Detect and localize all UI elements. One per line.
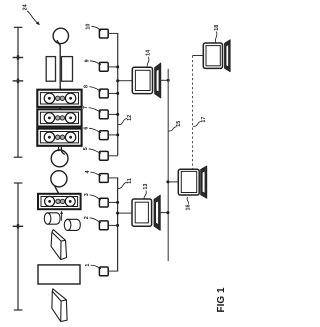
sensor box 1 bbox=[99, 267, 108, 276]
leader 10 bbox=[92, 26, 101, 30]
junction dot 9 bbox=[116, 65, 119, 68]
wire computer18 to dashed line corner bbox=[193, 55, 204, 57]
leader squiggle 13 bbox=[144, 191, 146, 200]
leader arrow for 24 bbox=[27, 11, 40, 25]
reel R1 (unwinder top) bbox=[53, 28, 68, 45]
leader squiggle 15 bbox=[168, 127, 176, 131]
wire box2 to bus bbox=[108, 224, 117, 226]
sensor box 3 bbox=[99, 198, 108, 207]
computer 13 monitor bbox=[132, 199, 152, 226]
tick mark at y57 bbox=[13, 55, 24, 60]
svg-text:24: 24 bbox=[22, 4, 28, 10]
dashed line 17 bbox=[192, 56, 194, 170]
wire box9 to bus bbox=[108, 66, 118, 68]
wire box6 to bus bbox=[108, 134, 118, 136]
svg-text:FIG 1: FIG 1 bbox=[216, 287, 227, 312]
leader 2 bbox=[90, 218, 101, 223]
leader squiggle 17 bbox=[193, 121, 201, 126]
wire box10 to bus bbox=[108, 32, 118, 34]
svg-text:2: 2 bbox=[84, 216, 90, 219]
computer 13 keyboard stand bbox=[154, 195, 160, 230]
tick mark at y226 bbox=[13, 224, 24, 229]
wire box7 to bus bbox=[108, 113, 118, 115]
sensor box 9 bbox=[99, 62, 108, 71]
reel R2 (rewinder bottom of group1) bbox=[51, 150, 68, 167]
svg-text:12: 12 bbox=[127, 115, 133, 121]
finishing unit box 4 bbox=[38, 194, 81, 209]
svg-text:3: 3 bbox=[84, 193, 90, 196]
wire bus11 to computer13 bbox=[118, 212, 132, 214]
roll cylinder right bbox=[64, 219, 80, 230]
sensor box 4 bbox=[99, 174, 108, 183]
junction dot 6 bbox=[116, 133, 119, 136]
computer 16 monitor bbox=[178, 169, 199, 195]
leader squiggle 14 bbox=[147, 57, 149, 67]
svg-text:11: 11 bbox=[127, 178, 133, 184]
leader squiggle 18 bbox=[215, 32, 217, 43]
web line group1 bbox=[59, 45, 61, 146]
wire box8 to bus bbox=[108, 92, 118, 94]
svg-text:4: 4 bbox=[85, 171, 91, 174]
sensor box 8 bbox=[99, 89, 108, 98]
sheet stack slab 1 bbox=[51, 230, 67, 260]
svg-text:17: 17 bbox=[201, 117, 207, 123]
reel R3 (unwind of group2) bbox=[51, 171, 67, 194]
wire box5 to bus bbox=[108, 155, 118, 157]
sheet stack slab 2 bbox=[52, 289, 67, 322]
bus 11 vertical bbox=[117, 178, 119, 271]
bus 15 vertical bbox=[167, 69, 169, 261]
svg-text:18: 18 bbox=[214, 25, 220, 31]
junction dot bus15-computer16 bbox=[166, 180, 169, 183]
computer 16 keyboard stand bbox=[201, 166, 207, 198]
svg-text:1: 1 bbox=[85, 264, 91, 267]
wire bus15 to computer16 bbox=[168, 181, 178, 183]
delivery rectangle bbox=[38, 265, 80, 284]
leader 4 bbox=[90, 172, 100, 176]
computer 18 monitor bbox=[203, 43, 222, 68]
tick mark at y81 bbox=[13, 79, 24, 84]
junction dot bus15-computer13 bbox=[166, 211, 169, 214]
svg-text:14: 14 bbox=[146, 50, 152, 56]
junction dot bus12-computer14 bbox=[116, 79, 119, 82]
wire box4 to bus bbox=[108, 177, 118, 179]
svg-text:13: 13 bbox=[143, 184, 149, 190]
computer 14 keyboard stand bbox=[155, 63, 161, 98]
junction dot bus15-computer14 bbox=[167, 79, 170, 82]
junction dot 3 bbox=[116, 201, 119, 204]
svg-text:15: 15 bbox=[176, 121, 182, 127]
junction dot bus11-computer13 bbox=[116, 212, 119, 215]
computer 18 keyboard stand bbox=[225, 40, 231, 72]
junction dot 2 bbox=[116, 224, 119, 227]
dryer rectangle left bbox=[46, 57, 55, 82]
leader 7 bbox=[89, 108, 101, 112]
printing unit box 2 bbox=[37, 109, 81, 126]
direction arrow bbox=[60, 211, 63, 221]
svg-text:5: 5 bbox=[83, 147, 89, 150]
sensor box 2 bbox=[99, 221, 108, 230]
web lines into reel R2 bbox=[59, 145, 65, 154]
leader squiggle 12 bbox=[118, 118, 127, 124]
svg-text:10: 10 bbox=[86, 24, 92, 30]
leader squiggle 16 bbox=[187, 197, 189, 204]
leader 6 bbox=[89, 128, 101, 132]
svg-text:16: 16 bbox=[185, 205, 191, 211]
sensor box 10 bbox=[99, 29, 108, 38]
computer 14 monitor bbox=[132, 67, 152, 93]
sensor box 5 bbox=[99, 151, 108, 160]
printing unit box 3 bbox=[37, 129, 81, 146]
leader 9 bbox=[90, 61, 101, 65]
leader 1 bbox=[91, 265, 101, 269]
svg-text:6: 6 bbox=[83, 127, 89, 130]
svg-text:9: 9 bbox=[84, 59, 90, 62]
leader 8 bbox=[89, 87, 100, 91]
wire computer14 to bus15 bbox=[161, 79, 168, 81]
leader 3 bbox=[90, 195, 101, 200]
sensor box 6 bbox=[99, 131, 108, 140]
dimension bracket line lower bbox=[14, 183, 23, 310]
bus 12 vertical bbox=[117, 33, 119, 155]
svg-text:8: 8 bbox=[84, 85, 90, 88]
svg-text:7: 7 bbox=[83, 106, 89, 109]
sensor box 7 bbox=[99, 110, 108, 119]
roll cylinder left bbox=[44, 213, 60, 224]
wire computer13 to bus15 bbox=[160, 212, 168, 214]
dryer rectangle right bbox=[62, 57, 73, 82]
printing unit box 1 bbox=[37, 90, 81, 107]
junction dot 8 bbox=[116, 92, 119, 95]
leader 5 bbox=[89, 149, 101, 153]
wire bus12 to computer14 bbox=[118, 80, 133, 82]
junction dot 7 bbox=[116, 113, 119, 116]
leader squiggle 11 bbox=[118, 182, 127, 188]
wire bus11 to box1 bbox=[108, 270, 118, 272]
dimension bracket line upper bbox=[14, 27, 23, 157]
wire box3 to bus bbox=[108, 201, 117, 203]
